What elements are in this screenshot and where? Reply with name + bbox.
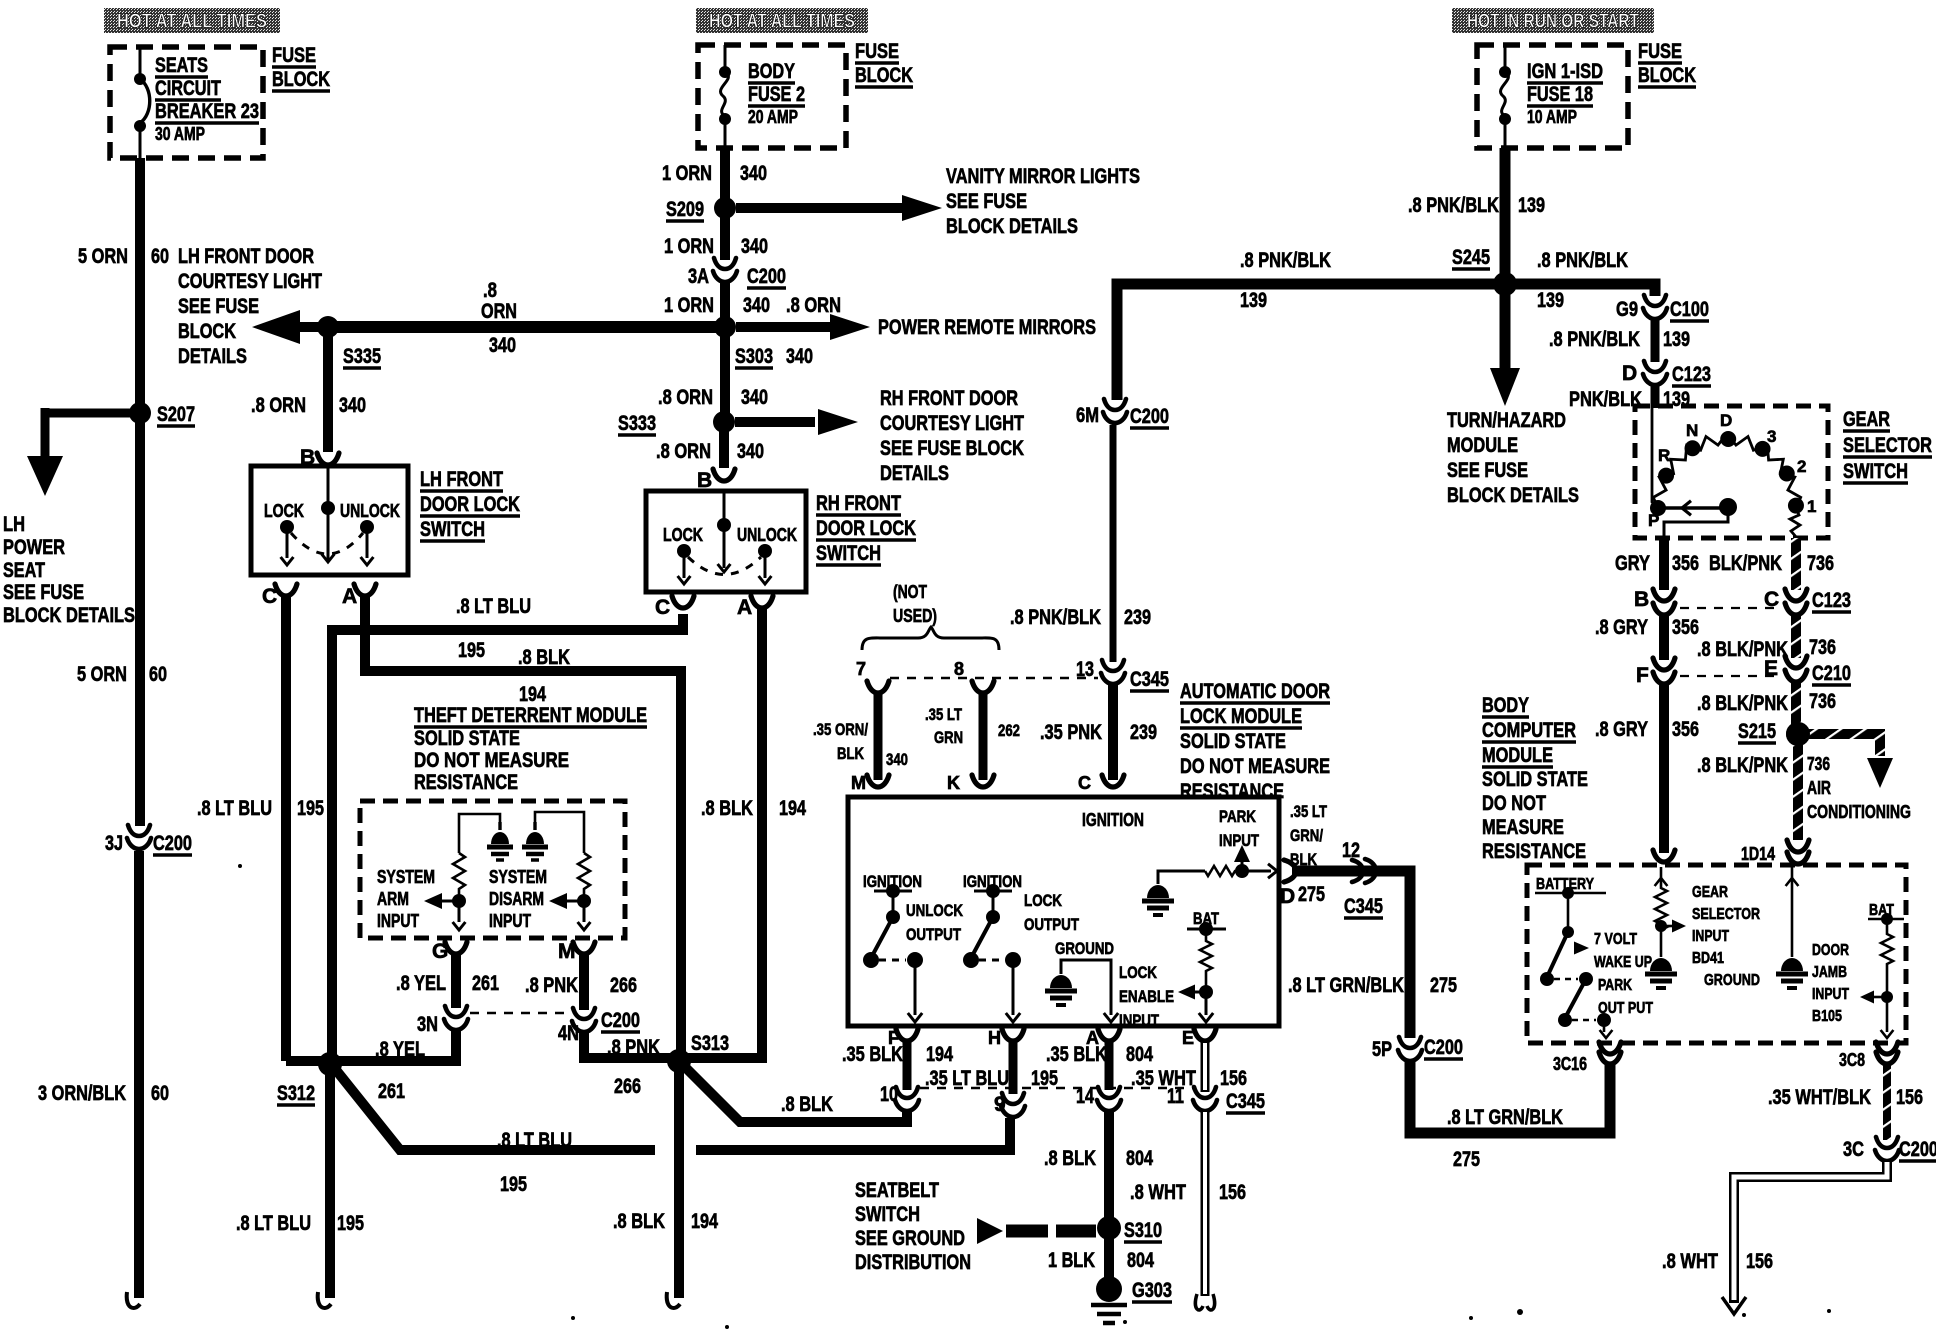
dashed connector line C345 top bbox=[890, 677, 1098, 679]
svg-text:.35 LT: .35 LT bbox=[1290, 802, 1327, 821]
wire 1 ORN 340 S209 to C200 bbox=[720, 208, 730, 260]
svg-text:SELECTOR: SELECTOR bbox=[1692, 906, 1760, 923]
gear selector input line bbox=[1652, 408, 1659, 508]
splice S303 bbox=[714, 316, 736, 338]
BCM gear selector input resistor bbox=[1655, 867, 1667, 938]
svg-text:340: 340 bbox=[786, 345, 813, 368]
arrow to LH front door courtesy light bbox=[300, 322, 328, 332]
dashed connector line C345 bottom bbox=[920, 1087, 1193, 1089]
svg-text:C200: C200 bbox=[1424, 1036, 1463, 1059]
wire .8 BLK/PNK 736 E to S215 bbox=[1791, 682, 1801, 728]
svg-text:AIR: AIR bbox=[1807, 778, 1831, 798]
svg-text:.8 ORN: .8 ORN bbox=[251, 394, 306, 417]
svg-text:DO NOT MEASURE: DO NOT MEASURE bbox=[1180, 755, 1330, 778]
svg-text:.8 BLK: .8 BLK bbox=[518, 646, 570, 669]
svg-text:3N: 3N bbox=[417, 1013, 438, 1036]
svg-text:BLK/PNK: BLK/PNK bbox=[1709, 552, 1782, 575]
svg-text:SEE FUSE: SEE FUSE bbox=[178, 295, 259, 318]
svg-text:.8 WHT: .8 WHT bbox=[1662, 1250, 1718, 1273]
svg-text:.8 LT BLU: .8 LT BLU bbox=[236, 1212, 311, 1235]
svg-text:GROUND: GROUND bbox=[1704, 972, 1760, 989]
svg-text:.8 LT BLU: .8 LT BLU bbox=[197, 797, 272, 820]
continuation hook (left wire) bbox=[127, 1292, 140, 1308]
svg-text:.8 GRY: .8 GRY bbox=[1595, 616, 1648, 639]
BCM ground 1 bbox=[1660, 938, 1663, 957]
wire .35 WHT 156 pin E to 11 (unshielded) bbox=[1201, 1041, 1210, 1092]
svg-text:6M: 6M bbox=[1076, 404, 1099, 427]
svg-text:D: D bbox=[1720, 411, 1732, 430]
svg-text:3A: 3A bbox=[688, 265, 709, 288]
svg-text:.8 LT GRN/BLK: .8 LT GRN/BLK bbox=[1288, 974, 1404, 997]
svg-text:OUTPUT: OUTPUT bbox=[906, 925, 961, 944]
LH switch dashed wiper arc bbox=[291, 533, 363, 554]
svg-text:.35 LT BLU: .35 LT BLU bbox=[925, 1067, 1009, 1090]
svg-text:156: 156 bbox=[1896, 1086, 1923, 1109]
svg-text:OUTPUT: OUTPUT bbox=[1024, 915, 1079, 934]
svg-text:340: 340 bbox=[886, 750, 908, 769]
fuse block dashed box (IGN fuse 18) bbox=[1477, 45, 1628, 148]
svg-text:BREAKER 23: BREAKER 23 bbox=[155, 100, 259, 123]
svg-text:5 ORN: 5 ORN bbox=[77, 663, 127, 686]
svg-text:340: 340 bbox=[741, 386, 768, 409]
svg-text:VANITY MIRROR LIGHTS: VANITY MIRROR LIGHTS bbox=[946, 165, 1140, 188]
svg-text:.8 LT GRN/BLK: .8 LT GRN/BLK bbox=[1447, 1106, 1563, 1129]
svg-text:SEE GROUND: SEE GROUND bbox=[855, 1227, 965, 1250]
svg-text:DISARM: DISARM bbox=[489, 889, 544, 909]
svg-text:LOCK: LOCK bbox=[264, 501, 304, 521]
svg-text:HOT AT ALL TIMES: HOT AT ALL TIMES bbox=[709, 11, 855, 33]
svg-text:60: 60 bbox=[151, 245, 169, 268]
splice S333 bbox=[713, 411, 735, 433]
svg-text:.8 WHT: .8 WHT bbox=[1130, 1181, 1186, 1204]
RH switch dashed wiper arc bbox=[688, 557, 761, 575]
svg-text:736: 736 bbox=[1809, 690, 1836, 713]
svg-text:POWER: POWER bbox=[3, 536, 65, 559]
svg-text:.8 ORN: .8 ORN bbox=[656, 440, 711, 463]
svg-text:.8 YEL: .8 YEL bbox=[375, 1038, 425, 1061]
svg-text:RESISTANCE: RESISTANCE bbox=[414, 771, 518, 794]
connector C200 4N bbox=[572, 1008, 596, 1032]
svg-text:SYSTEM: SYSTEM bbox=[377, 867, 435, 887]
svg-text:TURN/HAZARD: TURN/HAZARD bbox=[1447, 409, 1566, 432]
svg-text:LOCK MODULE: LOCK MODULE bbox=[1180, 705, 1302, 728]
disarm lamp bbox=[522, 822, 548, 860]
gear selector switch dashed box bbox=[1635, 406, 1828, 538]
svg-text:DO NOT: DO NOT bbox=[1482, 792, 1546, 815]
svg-text:C210: C210 bbox=[1812, 662, 1851, 685]
svg-text:FUSE 18: FUSE 18 bbox=[1527, 83, 1593, 106]
svg-text:60: 60 bbox=[149, 663, 167, 686]
svg-text:INPUT: INPUT bbox=[1219, 831, 1259, 850]
svg-text:PNK/BLK: PNK/BLK bbox=[1569, 388, 1642, 411]
svg-text:S312: S312 bbox=[277, 1082, 315, 1105]
lock output arrow to pin H bbox=[1012, 960, 1015, 1015]
arrow to RH front door courtesy light bbox=[735, 417, 815, 427]
svg-text:139: 139 bbox=[1518, 194, 1545, 217]
svg-text:BODY: BODY bbox=[748, 60, 795, 83]
svg-text:S313: S313 bbox=[691, 1032, 729, 1055]
svg-text:C200: C200 bbox=[1130, 405, 1169, 428]
svg-text:195: 195 bbox=[297, 797, 324, 820]
automatic door lock module box bbox=[848, 797, 1279, 1026]
svg-text:356: 356 bbox=[1672, 552, 1699, 575]
svg-text:.35 BLK: .35 BLK bbox=[842, 1043, 903, 1066]
svg-text:C345: C345 bbox=[1226, 1090, 1265, 1113]
svg-text:SEE FUSE: SEE FUSE bbox=[3, 581, 84, 604]
system arm resistor bbox=[453, 853, 465, 896]
svg-text:S207: S207 bbox=[157, 403, 195, 426]
svg-text:SEE FUSE BLOCK: SEE FUSE BLOCK bbox=[880, 437, 1024, 460]
svg-text:THEFT DETERRENT MODULE: THEFT DETERRENT MODULE bbox=[414, 704, 647, 727]
svg-text:INPUT: INPUT bbox=[489, 911, 531, 931]
svg-text:.8 PNK/BLK: .8 PNK/BLK bbox=[1549, 328, 1640, 351]
RH switch common contact and lever bbox=[723, 491, 726, 568]
splice S207 bbox=[129, 402, 151, 424]
svg-text:GEAR: GEAR bbox=[1692, 884, 1728, 901]
body computer module dashed box bbox=[1527, 865, 1906, 1043]
svg-text:SEE FUSE: SEE FUSE bbox=[946, 190, 1027, 213]
gear selector resistive arc bbox=[1653, 434, 1800, 539]
svg-text:S335: S335 bbox=[343, 345, 381, 368]
svg-text:D: D bbox=[1622, 362, 1637, 385]
svg-text:SEE FUSE: SEE FUSE bbox=[1447, 459, 1528, 482]
svg-text:.8 BLK: .8 BLK bbox=[701, 797, 753, 820]
system arm input node and arrow bbox=[452, 894, 466, 908]
svg-text:.8 LT BLU: .8 LT BLU bbox=[456, 595, 531, 618]
svg-text:340: 340 bbox=[741, 235, 768, 258]
svg-text:S310: S310 bbox=[1124, 1219, 1162, 1242]
svg-text:UNLOCK: UNLOCK bbox=[737, 525, 797, 545]
RH front door lock switch box bbox=[646, 491, 806, 592]
svg-text:C100: C100 bbox=[1670, 298, 1709, 321]
svg-text:P: P bbox=[1648, 511, 1659, 530]
svg-text:LOCK: LOCK bbox=[1024, 891, 1063, 910]
svg-text:S245: S245 bbox=[1452, 246, 1490, 269]
continuation hook (194 wire) bbox=[667, 1292, 680, 1308]
svg-text:275: 275 bbox=[1430, 974, 1457, 997]
wire .8 GRY 356 B to C210 F bbox=[1659, 615, 1669, 660]
svg-text:340: 340 bbox=[489, 334, 516, 357]
svg-text:195: 195 bbox=[1031, 1067, 1058, 1090]
svg-text:AUTOMATIC DOOR: AUTOMATIC DOOR bbox=[1180, 680, 1330, 703]
svg-text:SWITCH: SWITCH bbox=[855, 1203, 920, 1226]
7 volt wake up arrow bbox=[1574, 942, 1589, 955]
svg-text:COMPUTER: COMPUTER bbox=[1482, 719, 1576, 742]
svg-text:SWITCH: SWITCH bbox=[420, 518, 485, 541]
svg-text:BLOCK: BLOCK bbox=[1638, 64, 1696, 87]
svg-text:FUSE 2: FUSE 2 bbox=[748, 83, 805, 106]
wire GRY 356 gear selector to C123 B bbox=[1659, 538, 1669, 590]
svg-text:S209: S209 bbox=[666, 198, 704, 221]
pin D connector (ADL) bbox=[1284, 860, 1296, 882]
svg-text:.35 WHT: .35 WHT bbox=[1131, 1067, 1196, 1090]
svg-text:(NOT: (NOT bbox=[893, 582, 927, 602]
svg-text:BLOCK: BLOCK bbox=[855, 64, 913, 87]
system disarm resistor bbox=[578, 853, 590, 896]
svg-text:HOT IN RUN OR START: HOT IN RUN OR START bbox=[1467, 11, 1639, 33]
svg-text:261: 261 bbox=[378, 1080, 405, 1103]
svg-text:LH: LH bbox=[3, 513, 25, 536]
svg-text:COURTESY LIGHT: COURTESY LIGHT bbox=[880, 412, 1024, 435]
svg-text:4N: 4N bbox=[558, 1022, 579, 1045]
unlock output arrow to pin F bbox=[914, 960, 917, 1015]
svg-text:356: 356 bbox=[1672, 616, 1699, 639]
svg-text:C200: C200 bbox=[601, 1009, 640, 1032]
wire .8 LT GRN/BLK 275 3C16 to C200 5P bbox=[1410, 1062, 1610, 1133]
fuse block dashed box (body fuse 2) bbox=[698, 45, 846, 148]
svg-text:3: 3 bbox=[1767, 427, 1776, 446]
dashed line C123 bbox=[1680, 607, 1779, 609]
wire .8 BLK 804 14 to S310 bbox=[1104, 1110, 1114, 1222]
svg-text:SELECTOR: SELECTOR bbox=[1843, 434, 1932, 457]
wire from S207 to LH power seat arrow bbox=[45, 409, 140, 418]
svg-text:DETAILS: DETAILS bbox=[178, 345, 247, 368]
svg-text:266: 266 bbox=[610, 974, 637, 997]
svg-text:262: 262 bbox=[998, 721, 1020, 740]
BCM park output switch bbox=[1565, 979, 1586, 1018]
svg-text:266: 266 bbox=[614, 1075, 641, 1098]
svg-text:804: 804 bbox=[1126, 1043, 1153, 1066]
wire .35 BLK 804 pin A to 14 bbox=[1105, 1041, 1114, 1090]
svg-text:.8 PNK/BLK: .8 PNK/BLK bbox=[1537, 249, 1628, 272]
svg-text:GEAR: GEAR bbox=[1843, 408, 1890, 431]
svg-text:C123: C123 bbox=[1812, 589, 1851, 612]
wire .8 WHT 156 3C to bottom (unshielded) bbox=[1734, 1162, 1887, 1303]
wire .8 ORN 340 S303 to S335 bbox=[328, 321, 725, 333]
svg-text:2: 2 bbox=[1797, 457, 1806, 476]
wire 1 BLK 804 S310 to G303 bbox=[1104, 1228, 1114, 1280]
svg-text:B105: B105 bbox=[1812, 1008, 1842, 1025]
svg-text:356: 356 bbox=[1672, 718, 1699, 741]
wire PNK/BLK 139 C123 to gear selector switch bbox=[1651, 386, 1660, 408]
svg-text:CONDITIONING: CONDITIONING bbox=[1807, 802, 1911, 822]
svg-text:BD41: BD41 bbox=[1692, 950, 1724, 967]
wire .8 BLK 194 LH pin A to RH area bbox=[365, 596, 681, 1058]
wire 5 ORN 60 from breaker to S207 bbox=[135, 158, 145, 413]
svg-text:C200: C200 bbox=[153, 832, 192, 855]
svg-text:USED): USED) bbox=[893, 606, 937, 626]
wire .8 BLK 194 S313 down to bottom bbox=[674, 1061, 684, 1298]
wire .8 YEL 261 S312 to 3N bbox=[330, 1030, 456, 1061]
svg-text:N: N bbox=[1686, 421, 1698, 440]
connector C200 3A bbox=[713, 258, 737, 282]
svg-text:.35 WHT/BLK: .35 WHT/BLK bbox=[1768, 1086, 1871, 1109]
wire .35 WHT/BLK 156 3C8 to C200 3C bbox=[1883, 1062, 1891, 1140]
connector C200 3J bbox=[127, 825, 151, 849]
connector C200 3N bbox=[444, 1006, 468, 1030]
svg-text:156: 156 bbox=[1746, 1250, 1773, 1273]
svg-text:JAMB: JAMB bbox=[1812, 964, 1847, 981]
svg-text:3C8: 3C8 bbox=[1839, 1050, 1865, 1070]
svg-text:194: 194 bbox=[926, 1043, 953, 1066]
svg-text:BLOCK: BLOCK bbox=[178, 320, 236, 343]
svg-text:MODULE: MODULE bbox=[1482, 744, 1553, 767]
wire .8 PNK/BLK 139 S245 to C100 G9 bbox=[1505, 284, 1655, 296]
svg-text:8: 8 bbox=[954, 659, 964, 679]
svg-text:.8 BLK: .8 BLK bbox=[1044, 1147, 1096, 1170]
wire .8 WHT 156 11 to bottom (unshielded) bbox=[1201, 1110, 1210, 1296]
svg-text:340: 340 bbox=[743, 294, 770, 317]
svg-text:.8 ORN: .8 ORN bbox=[786, 294, 841, 317]
svg-text:H: H bbox=[988, 1028, 1001, 1048]
svg-text:14: 14 bbox=[1076, 1085, 1094, 1108]
wire .8 BLK 194 RH pin A to S313 bbox=[688, 608, 762, 1058]
wire .35 PNK 239 pin 13 to pin C bbox=[1108, 685, 1118, 780]
svg-text:.8 PNK: .8 PNK bbox=[607, 1036, 660, 1059]
svg-text:804: 804 bbox=[1127, 1249, 1154, 1272]
svg-text:IGNITION: IGNITION bbox=[1082, 810, 1144, 830]
svg-text:239: 239 bbox=[1130, 721, 1157, 744]
svg-text:1 ORN: 1 ORN bbox=[664, 235, 714, 258]
wire .8 BLK/PNK 736 S215 to BCM 1D14 bbox=[1793, 734, 1803, 840]
svg-text:R: R bbox=[1658, 446, 1670, 465]
svg-text:139: 139 bbox=[1240, 289, 1267, 312]
svg-text:194: 194 bbox=[519, 683, 546, 706]
svg-text:ORN: ORN bbox=[481, 300, 517, 323]
svg-text:RH FRONT DOOR: RH FRONT DOOR bbox=[880, 387, 1018, 410]
wire .35 LT BLU 195 pin H to 9 bbox=[1009, 1041, 1018, 1094]
svg-text:F: F bbox=[1636, 664, 1649, 687]
svg-text:C200: C200 bbox=[747, 265, 786, 288]
arrow to power remote mirrors bbox=[736, 322, 830, 332]
arrow to LH power seat bbox=[41, 408, 50, 462]
wire 1 ORN 340 fuse to S209 bbox=[720, 148, 730, 208]
wire 736 S215 to air conditioning bbox=[1798, 734, 1880, 756]
svg-text:736: 736 bbox=[1809, 636, 1836, 659]
svg-text:RESISTANCE: RESISTANCE bbox=[1482, 840, 1586, 863]
svg-text:.8 BLK: .8 BLK bbox=[781, 1093, 833, 1116]
LH front door lock switch box bbox=[251, 466, 408, 575]
svg-text:3 ORN/BLK: 3 ORN/BLK bbox=[38, 1082, 126, 1105]
svg-text:LH FRONT DOOR: LH FRONT DOOR bbox=[178, 245, 314, 268]
wire .8 LT BLU 195 S312 down to bottom bbox=[325, 1064, 335, 1298]
svg-text:.35 PNK: .35 PNK bbox=[1040, 721, 1102, 744]
wire .8 PNK/BLK 139 fuse to S245 bbox=[1500, 148, 1511, 284]
svg-text:MEASURE: MEASURE bbox=[1482, 816, 1564, 839]
svg-text:B: B bbox=[1634, 588, 1649, 611]
svg-text:194: 194 bbox=[779, 797, 806, 820]
svg-text:ENABLE: ENABLE bbox=[1119, 987, 1174, 1006]
svg-text:FUSE: FUSE bbox=[1638, 40, 1682, 63]
svg-text:INPUT: INPUT bbox=[1812, 986, 1849, 1003]
LH switch common contact and lever bbox=[327, 466, 330, 560]
power label HOT AT ALL TIMES (left) bbox=[104, 8, 280, 33]
svg-text:OUT PUT: OUT PUT bbox=[1598, 1000, 1653, 1017]
svg-text:BODY: BODY bbox=[1482, 694, 1529, 717]
svg-text:GRN: GRN bbox=[934, 728, 963, 747]
wire .8 PNK/BLK 239 from C200 down to 13 bbox=[1110, 425, 1117, 662]
svg-text:340: 340 bbox=[740, 162, 767, 185]
svg-text:SWITCH: SWITCH bbox=[816, 542, 881, 565]
continuation open arrow (.8 WHT) bbox=[1722, 1297, 1746, 1314]
wire .8 LT BLU 195 S312 to C345 pin 9 bbox=[336, 1070, 655, 1150]
svg-text:IGN 1-ISD: IGN 1-ISD bbox=[1527, 60, 1603, 83]
svg-text:HOT AT ALL TIMES: HOT AT ALL TIMES bbox=[117, 11, 267, 33]
svg-text:736: 736 bbox=[1807, 754, 1830, 774]
wire .8 YEL 261 pin G to 3N bbox=[451, 954, 461, 1008]
svg-text:340: 340 bbox=[737, 440, 764, 463]
svg-text:30 AMP: 30 AMP bbox=[155, 124, 205, 144]
wire .8 PNK 266 4N to S313 bbox=[584, 1033, 672, 1058]
svg-text:5 ORN: 5 ORN bbox=[78, 245, 128, 268]
svg-text:WAKE UP: WAKE UP bbox=[1594, 954, 1652, 971]
svg-text:POWER REMOTE MIRRORS: POWER REMOTE MIRRORS bbox=[878, 316, 1096, 339]
scan speckles bbox=[571, 1316, 575, 1320]
theft deterrent module dashed box bbox=[360, 801, 625, 938]
svg-text:UNLOCK: UNLOCK bbox=[906, 901, 964, 920]
svg-text:C: C bbox=[1078, 773, 1091, 793]
gear selector wiper bbox=[1660, 506, 1725, 509]
svg-text:SEATBELT: SEATBELT bbox=[855, 1179, 939, 1202]
svg-text:M: M bbox=[851, 773, 866, 793]
svg-text:1: 1 bbox=[1807, 497, 1816, 516]
svg-text:.8 PNK: .8 PNK bbox=[525, 974, 578, 997]
svg-text:SOLID STATE: SOLID STATE bbox=[1180, 730, 1286, 753]
svg-text:CIRCUIT: CIRCUIT bbox=[155, 77, 221, 100]
splice S209 bbox=[714, 197, 736, 219]
svg-text:SOLID STATE: SOLID STATE bbox=[1482, 768, 1588, 791]
svg-text:736: 736 bbox=[1807, 552, 1834, 575]
svg-text:.8 ORN: .8 ORN bbox=[658, 386, 713, 409]
svg-text:194: 194 bbox=[691, 1210, 718, 1233]
svg-text:.8 LT BLU: .8 LT BLU bbox=[497, 1129, 572, 1152]
svg-text:C200: C200 bbox=[1899, 1138, 1936, 1161]
svg-text:GRY: GRY bbox=[1615, 552, 1650, 575]
svg-text:.8 BLK/PNK: .8 BLK/PNK bbox=[1697, 692, 1788, 715]
svg-text:PARK: PARK bbox=[1598, 977, 1632, 994]
svg-text:UNLOCK: UNLOCK bbox=[340, 501, 400, 521]
svg-text:C: C bbox=[655, 596, 670, 619]
svg-text:K: K bbox=[947, 773, 960, 793]
svg-text:.35 BLK: .35 BLK bbox=[1046, 1043, 1107, 1066]
svg-text:261: 261 bbox=[472, 972, 499, 995]
svg-text:DOOR LOCK: DOOR LOCK bbox=[816, 517, 916, 540]
connector C345 pin 12 bbox=[1352, 859, 1376, 883]
svg-text:RH FRONT: RH FRONT bbox=[816, 492, 901, 515]
BCM ground 2 (1D14 input) bbox=[1791, 867, 1794, 957]
svg-text:DISTRIBUTION: DISTRIBUTION bbox=[855, 1251, 971, 1274]
wire .8 ORN 340 S335 to LH switch pin B bbox=[323, 327, 333, 452]
svg-text:ARM: ARM bbox=[377, 889, 409, 909]
svg-text:C123: C123 bbox=[1672, 363, 1711, 386]
wire .8 PNK 266 pin M to 4N bbox=[579, 954, 589, 1010]
svg-text:60: 60 bbox=[151, 1082, 169, 1105]
theft module internal wiring bbox=[459, 814, 500, 853]
svg-text:.8 PNK/BLK: .8 PNK/BLK bbox=[1240, 249, 1331, 272]
fuse BODY FUSE 2 symbol bbox=[719, 45, 731, 148]
svg-text:1 ORN: 1 ORN bbox=[662, 162, 712, 185]
svg-text:1D14: 1D14 bbox=[1741, 844, 1775, 864]
svg-text:COURTESY LIGHT: COURTESY LIGHT bbox=[178, 270, 322, 293]
svg-text:S215: S215 bbox=[1738, 720, 1776, 743]
svg-text:139: 139 bbox=[1663, 328, 1690, 351]
wire .8 BLK/PNK 736 C to C210 E bbox=[1791, 615, 1801, 658]
svg-text:12: 12 bbox=[1342, 839, 1360, 862]
svg-text:MODULE: MODULE bbox=[1447, 434, 1518, 457]
svg-text:156: 156 bbox=[1219, 1181, 1246, 1204]
svg-text:DETAILS: DETAILS bbox=[880, 462, 949, 485]
wire 1 ORN 340 C200 to S303 bbox=[720, 283, 730, 327]
dashed line C210 bbox=[1680, 675, 1779, 677]
svg-text:.35 LT: .35 LT bbox=[925, 705, 962, 724]
svg-text:INPUT: INPUT bbox=[377, 911, 419, 931]
svg-text:239: 239 bbox=[1124, 606, 1151, 629]
svg-text:SYSTEM: SYSTEM bbox=[489, 867, 547, 887]
svg-text:DOOR LOCK: DOOR LOCK bbox=[420, 493, 520, 516]
svg-text:13: 13 bbox=[1076, 658, 1094, 681]
svg-text:.8: .8 bbox=[483, 279, 497, 302]
svg-text:GROUND: GROUND bbox=[1055, 939, 1114, 958]
